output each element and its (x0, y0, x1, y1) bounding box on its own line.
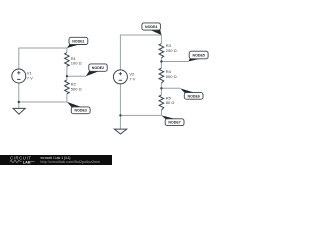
svg-text:NODE2: NODE2 (92, 66, 104, 70)
wire (18, 47, 67, 49)
junction (V2 bottom / ground) (119, 114, 121, 116)
value label R1 100 Ω (71, 56, 82, 66)
svg-text:NODE1: NODE1 (72, 39, 84, 43)
wire (160, 83, 162, 95)
svg-text:7 V: 7 V (27, 75, 33, 80)
voltage source V2 (113, 70, 127, 84)
wire (67, 75, 86, 77)
wire (119, 84, 121, 115)
svg-text:200 Ω: 200 Ω (166, 48, 177, 53)
resistor R4 (159, 68, 164, 83)
value label R2 500 Ω (71, 82, 82, 92)
svg-text:500 Ω: 500 Ω (71, 86, 82, 91)
svg-text:NODE5: NODE5 (193, 54, 205, 58)
junction (R4-R5 node) (160, 87, 162, 89)
resistor R1 (65, 53, 70, 67)
ground (left) (13, 108, 25, 114)
node NODE5 (188, 51, 208, 61)
node NODE7 (161, 115, 184, 125)
wire (160, 35, 162, 44)
value label V2 7 V (129, 72, 135, 82)
wire (161, 87, 180, 89)
wire (18, 102, 20, 108)
svg-text:NODE6: NODE6 (188, 94, 200, 98)
junction (R3-R4 node) (160, 60, 162, 62)
wire (19, 101, 67, 103)
wire (161, 61, 188, 63)
node NODE2 (86, 64, 107, 76)
value label R4 500 Ω (166, 69, 177, 79)
wire (120, 34, 161, 36)
svg-text:500 Ω: 500 Ω (166, 74, 177, 79)
svg-text:7 V: 7 V (129, 76, 135, 81)
node NODE6 (180, 88, 203, 99)
value label R5 80 Ω (166, 95, 175, 105)
wire (18, 48, 20, 69)
node NODE3 (67, 102, 90, 114)
wire (66, 48, 68, 53)
wire (119, 35, 121, 70)
resistor R2 (65, 80, 70, 94)
node NODE4 (142, 23, 162, 35)
svg-text:NODE4: NODE4 (145, 25, 157, 29)
node NODE1 (67, 37, 88, 48)
wire (119, 115, 121, 129)
wire (66, 66, 68, 80)
voltage source V1 (12, 69, 26, 83)
value label R3 200 Ω (166, 43, 177, 53)
svg-text:http://circuitlab.com/9kd2pu6u: http://circuitlab.com/9kd2pu6uz2mm (41, 160, 101, 164)
wire (160, 110, 162, 115)
resistor R5 (159, 95, 164, 110)
wire (66, 94, 68, 102)
svg-text:LAB: LAB (23, 160, 31, 164)
junction (V1 bottom / ground) (18, 101, 20, 103)
wire (160, 58, 162, 68)
footer bar (0, 155, 112, 165)
svg-text:80 Ω: 80 Ω (166, 100, 175, 105)
resistor R3 (159, 44, 164, 58)
wire (18, 83, 20, 102)
svg-text:NODE3: NODE3 (75, 109, 87, 113)
wire (120, 114, 161, 116)
value label V1 7 V (27, 71, 33, 81)
ground (right) (114, 129, 126, 134)
svg-text:NODE7: NODE7 (168, 121, 180, 125)
junction (R1-R2 node) (66, 75, 68, 77)
svg-text:100 Ω: 100 Ω (71, 61, 82, 66)
